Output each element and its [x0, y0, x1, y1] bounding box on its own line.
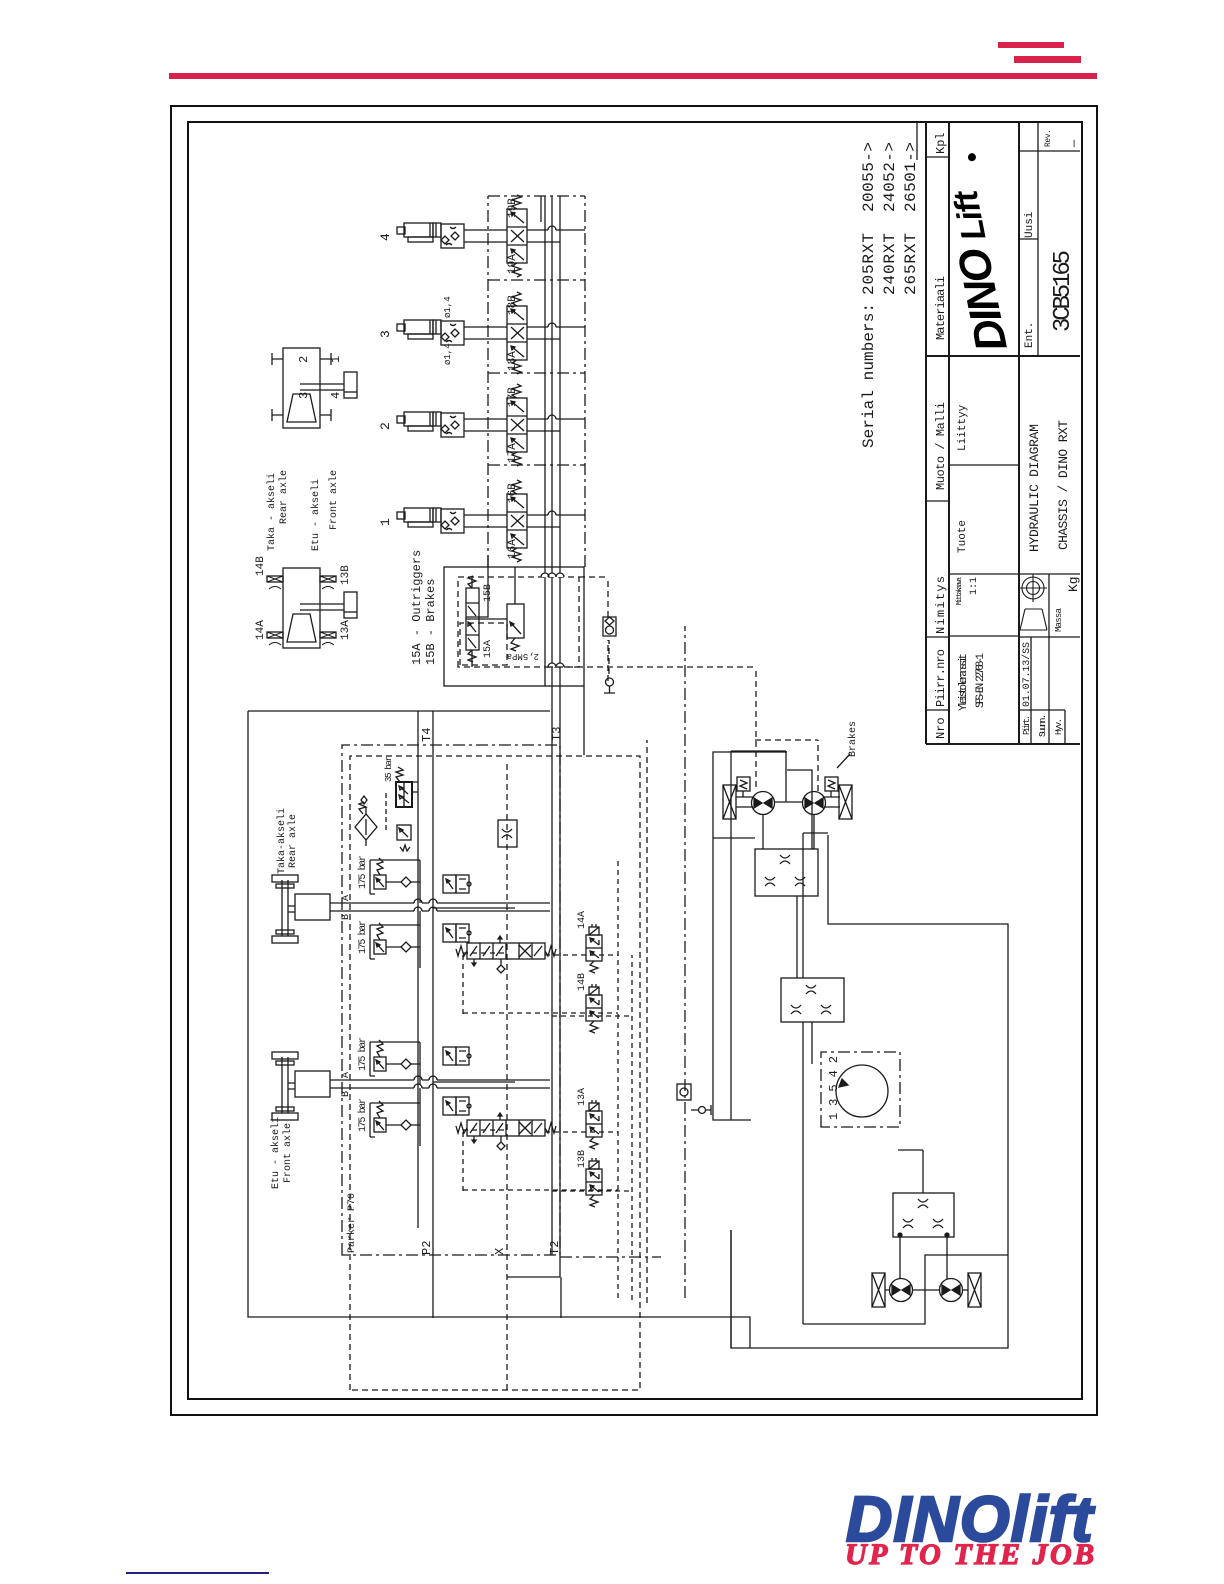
svg-text:13B: 13B	[340, 565, 352, 585]
svg-text:Tuote: Tuote	[957, 520, 969, 553]
svg-text:2: 2	[378, 422, 393, 430]
svg-text:14B: 14B	[255, 556, 267, 576]
svg-text:Liittyy: Liittyy	[957, 404, 969, 451]
svg-text:35 bar: 35 bar	[384, 756, 394, 782]
svg-text:3CB5165: 3CB5165	[1050, 250, 1077, 332]
svg-text:2: 2	[297, 356, 311, 363]
svg-text:2,5MPa: 2,5MPa	[506, 651, 539, 661]
svg-text:CHASSIS / DINO RXT: CHASSIS / DINO RXT	[1056, 420, 1071, 550]
svg-text:B: B	[341, 914, 352, 920]
svg-text:175 bar: 175 bar	[357, 1037, 369, 1071]
svg-text:24052->: 24052->	[881, 142, 899, 212]
svg-text:Serial numbers:: Serial numbers:	[860, 303, 878, 448]
svg-text:Massa: Massa	[1054, 607, 1064, 632]
svg-text:A: A	[341, 1072, 352, 1078]
svg-text:Rear axle: Rear axle	[278, 470, 290, 524]
svg-text:T3: T3	[550, 727, 564, 741]
svg-text:P2: P2	[420, 1241, 434, 1255]
svg-text:1: 1	[329, 356, 343, 363]
svg-text:4: 4	[329, 392, 343, 399]
svg-text:Kpl: Kpl	[934, 132, 948, 154]
svg-text:20055->: 20055->	[860, 142, 878, 212]
svg-text:Mittakaava: Mittakaava	[956, 577, 964, 605]
svg-text:T4: T4	[420, 728, 434, 742]
svg-text:17B: 17B	[507, 387, 519, 407]
svg-text:13A: 13A	[577, 1088, 588, 1106]
svg-text:175 bar: 175 bar	[357, 920, 369, 954]
svg-text:3: 3	[378, 330, 393, 338]
svg-text:Rear axle: Rear axle	[287, 814, 299, 868]
svg-text:Front axle: Front axle	[282, 1123, 294, 1183]
svg-text:205RXT: 205RXT	[860, 233, 878, 295]
svg-text:Etu - akseli: Etu - akseli	[270, 1117, 282, 1189]
svg-text:26501->: 26501->	[902, 142, 920, 212]
svg-text:265RXT: 265RXT	[902, 233, 920, 295]
svg-text:ø1,4: ø1,4	[443, 343, 453, 365]
svg-text:3: 3	[297, 392, 311, 399]
svg-text:01.07.13/SS: 01.07.13/SS	[1021, 642, 1033, 707]
svg-text:1: 1	[378, 518, 393, 526]
svg-text:240RXT: 240RXT	[881, 233, 899, 295]
svg-text:A: A	[341, 895, 352, 901]
svg-text:14B: 14B	[577, 973, 588, 991]
svg-text:Etu - akseli: Etu - akseli	[310, 479, 322, 551]
svg-text:Brakes: Brakes	[847, 721, 859, 757]
svg-text:175 bar: 175 bar	[357, 1098, 369, 1132]
svg-text:17A: 17A	[507, 443, 519, 463]
svg-text:Parker P70: Parker P70	[346, 1193, 358, 1253]
svg-text:18A: 18A	[507, 351, 519, 371]
svg-text:Ent.: Ent.	[1024, 322, 1036, 348]
svg-text:Suunn.: Suunn.	[1038, 714, 1048, 737]
svg-text:13B: 13B	[577, 1150, 588, 1168]
svg-text:14A: 14A	[577, 911, 588, 929]
svg-text:—: —	[1067, 139, 1080, 148]
svg-text:16A: 16A	[507, 539, 519, 559]
svg-text:14A: 14A	[255, 620, 267, 640]
svg-text:Rev.: Rev.	[1044, 129, 1053, 147]
svg-text:Materiaali: Materiaali	[934, 276, 948, 340]
svg-text:Kg: Kg	[1066, 576, 1080, 592]
svg-text:Uusi: Uusi	[1024, 211, 1036, 238]
svg-text:Taka-akseli: Taka-akseli	[276, 808, 288, 874]
svg-text:ø1,4: ø1,4	[443, 296, 453, 318]
svg-text:4: 4	[378, 233, 393, 241]
svg-text:15A: 15A	[483, 640, 494, 658]
svg-text:Piirr.nro: Piirr.nro	[934, 649, 948, 707]
svg-text:Piirt.: Piirt.	[1022, 715, 1032, 735]
svg-text:Lift: Lift	[946, 186, 993, 244]
svg-text:Nro: Nro	[934, 717, 948, 739]
svg-text:Muoto / Malli: Muoto / Malli	[934, 402, 948, 490]
svg-text:Yleistoleranssit: Yleistoleranssit	[958, 653, 970, 711]
svg-text:Hyv.: Hyv.	[1054, 718, 1064, 735]
svg-text:B: B	[341, 1091, 352, 1097]
svg-text:SFS-EN 22768-1: SFS-EN 22768-1	[975, 653, 987, 708]
svg-text:15B - Brakes: 15B - Brakes	[424, 579, 438, 665]
svg-text:X: X	[493, 1248, 507, 1255]
svg-text:19A: 19A	[507, 254, 519, 274]
svg-text:Front axle: Front axle	[328, 470, 340, 530]
svg-text:HYDRAULIC DIAGRAM: HYDRAULIC DIAGRAM	[1027, 424, 1042, 552]
svg-text:18B: 18B	[507, 295, 519, 315]
svg-text:15A - Outriggers: 15A - Outriggers	[410, 550, 424, 665]
svg-text:1 3 5 4 2: 1 3 5 4 2	[827, 1056, 841, 1120]
svg-text:Nimitys: Nimitys	[934, 576, 948, 634]
svg-text:DINO: DINO	[949, 244, 1017, 355]
svg-text:Taka - akseli: Taka - akseli	[266, 473, 278, 551]
svg-text:1:1: 1:1	[969, 577, 980, 595]
svg-text:13A: 13A	[340, 620, 352, 640]
svg-text:19B: 19B	[507, 198, 519, 218]
svg-text:16B: 16B	[507, 483, 519, 503]
svg-text:175 bar: 175 bar	[357, 855, 369, 889]
